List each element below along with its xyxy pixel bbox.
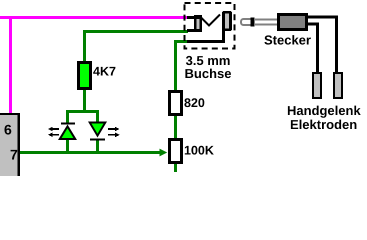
pin label 6 [5,125,12,135]
arrow D2 upper [108,128,117,130]
electrode right [333,72,343,99]
socket sleeve drop wire [222,30,225,40]
arrow D1 lower [50,134,59,136]
plug tip black band [251,18,255,27]
wire green below R1 [83,90,86,112]
plug shaft [254,19,278,21]
label 820 [184,98,204,107]
socket wire black tip top [187,16,202,19]
arrow D2 lower [108,134,117,136]
arrow D1 upper [50,128,59,130]
socket sleeve contact [222,11,232,31]
label 3.5 mm [186,56,230,65]
resistor R2 820 [168,90,183,116]
socket switch V [200,15,220,26]
wire green drop to D1 [66,110,69,123]
resistor R1 4K7 [77,61,92,90]
wire magenta horizontal to socket tip [0,16,188,19]
pin label 7 [11,150,18,160]
LED D2 cathode bar [90,139,105,141]
label 100K [185,146,214,155]
label Handgelenk [288,106,361,118]
wire green below D1 [66,140,69,152]
plug body [277,13,308,31]
socket wire black bottom [187,40,225,43]
plug tip [241,19,253,25]
socket wire black middle [187,29,202,32]
arrowhead green at 100K [160,149,168,157]
resistor R3 100K [168,138,183,164]
wire green bottom from socket [174,40,188,43]
wire green bottom rail from pin 7 [20,151,160,154]
LED D2 triangle [88,122,107,138]
wire magenta vertical to pin 6 [9,16,12,113]
label Buchse [185,69,231,79]
dashed box 3.5mm Buchse [185,3,235,49]
wire green LED top rail [66,110,99,113]
wire green drop to D2 [96,110,99,122]
connector header gray box [0,113,18,176]
wire green below D2 [96,141,99,152]
label Stecker [264,35,310,45]
LED D1 cathode bar [61,123,75,125]
wire green from socket down to R2 [174,40,177,90]
wire green horizontal top to socket [83,30,188,33]
socket tip contact [194,15,202,31]
LED D1 triangle [58,125,77,141]
label 4K7 [93,67,115,76]
plug wire top [308,16,338,19]
wire green stub below R3 [174,164,177,172]
label Elektroden [291,120,357,130]
electrode left [312,72,322,99]
wire green R2 to R3 [174,116,177,138]
wire green vertical to R1 top [83,30,86,61]
plug wire bottom [308,23,319,26]
